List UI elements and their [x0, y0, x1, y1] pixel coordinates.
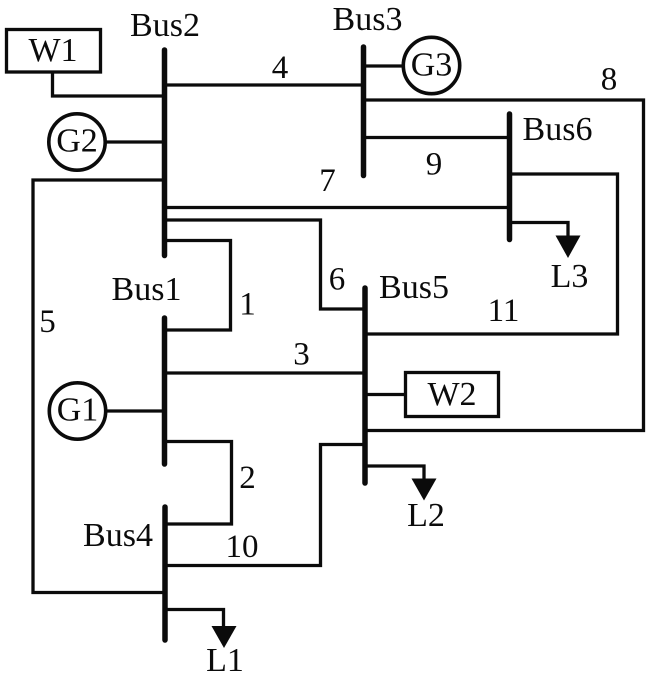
line 10 (Bus4-Bus5): [165, 445, 365, 566]
bus Bus5: [362, 288, 368, 483]
svg-text:10: 10: [226, 529, 259, 565]
load L2 wire: [365, 466, 424, 480]
wind unit W2 box: [406, 373, 499, 417]
line 11 (Bus6-Bus5): [365, 174, 618, 334]
svg-text:5: 5: [39, 304, 56, 340]
wire W2 to Bus5: [365, 393, 406, 396]
load L1 arrow: [212, 626, 237, 648]
svg-text:8: 8: [601, 62, 618, 98]
line 4 (Bus2-Bus3): [165, 83, 364, 86]
svg-text:Bus6: Bus6: [523, 111, 593, 148]
generator G3: [403, 37, 459, 93]
load L3 arrow: [556, 236, 581, 259]
line 1 (Bus2-Bus1): [165, 241, 231, 331]
generator G1: [49, 383, 105, 439]
svg-text:Bus5: Bus5: [379, 269, 449, 306]
line 2 (Bus1-Bus4): [165, 442, 232, 525]
svg-text:L2: L2: [407, 497, 445, 534]
svg-text:1: 1: [239, 287, 256, 323]
line 9 (Bus3-Bus6): [364, 136, 510, 139]
svg-text:7: 7: [319, 163, 336, 199]
bus Bus1: [162, 318, 168, 464]
svg-text:6: 6: [329, 262, 346, 298]
svg-text:3: 3: [293, 337, 310, 373]
load L2 arrow: [412, 479, 437, 501]
bus Bus2: [162, 50, 168, 256]
svg-text:G3: G3: [411, 47, 453, 84]
svg-text:Bus2: Bus2: [130, 7, 200, 44]
bus Bus3: [361, 47, 367, 176]
wind unit W1 box: [7, 30, 101, 73]
svg-text:Bus1: Bus1: [112, 271, 182, 308]
generator G2: [49, 114, 105, 170]
svg-text:11: 11: [488, 293, 520, 329]
wire G2 to Bus2: [106, 140, 165, 143]
bus Bus4: [162, 507, 168, 640]
wire W1 to Bus2: [53, 72, 165, 96]
line 5 (Bus2-Bus4): [33, 180, 165, 593]
svg-text:G1: G1: [57, 392, 99, 429]
svg-text:G2: G2: [56, 123, 98, 160]
wire G1 to Bus1: [107, 409, 165, 412]
svg-text:9: 9: [426, 147, 443, 183]
line 3 (Bus1-Bus5): [165, 371, 366, 374]
svg-text:4: 4: [272, 50, 289, 86]
svg-text:Bus3: Bus3: [333, 1, 403, 38]
svg-text:W2: W2: [427, 376, 476, 413]
line 7 (Bus2-Bus6): [165, 206, 510, 209]
load L1 wire: [165, 610, 224, 629]
svg-text:L3: L3: [551, 258, 589, 295]
svg-text:W1: W1: [28, 32, 77, 69]
svg-text:2: 2: [239, 460, 256, 496]
load L3 wire: [510, 223, 569, 238]
svg-text:L1: L1: [206, 642, 244, 679]
line 6 (Bus2-Bus5): [165, 220, 366, 309]
svg-text:Bus4: Bus4: [83, 517, 153, 554]
wire G3 to Bus3: [364, 64, 403, 67]
line 8 (Bus3-Bus5): [364, 100, 644, 431]
bus Bus6: [507, 114, 513, 240]
